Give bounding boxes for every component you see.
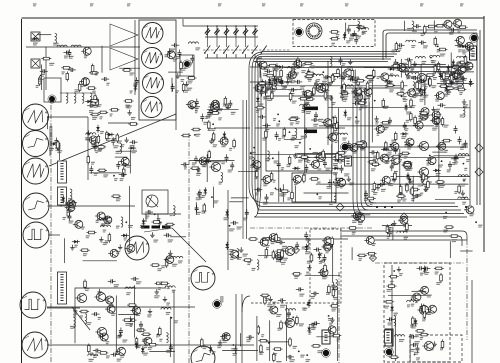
value label [81, 227, 85, 229]
resistor R182 [401, 80, 404, 90]
value label [328, 319, 333, 321]
capacitor C161 [394, 59, 398, 67]
transistor T189 [220, 333, 230, 341]
value label [336, 185, 340, 187]
resistor R161 [334, 155, 344, 158]
diode D124 [439, 71, 443, 79]
value label [382, 128, 387, 130]
value label [305, 252, 310, 254]
wire [433, 20, 435, 30]
resistor R157 [411, 186, 414, 196]
value label [447, 170, 451, 172]
wire [256, 316, 258, 361]
inductor L115 [407, 69, 409, 79]
value label [292, 136, 296, 138]
scope waveform circle S9 [142, 48, 163, 69]
resistor R109 [91, 64, 94, 74]
resistor R252 [264, 295, 267, 305]
node [463, 163, 465, 165]
value label [133, 309, 138, 311]
VHF tuner box outer border [383, 30, 477, 60]
bus junction node [391, 206, 393, 208]
tuner unit dashed box [293, 20, 375, 47]
ground [462, 99, 466, 104]
ground [127, 110, 131, 115]
value label [296, 122, 300, 124]
value label [447, 90, 452, 92]
diode D140 [307, 325, 311, 333]
capacitor C237 [449, 28, 457, 32]
wire corner [242, 296, 250, 312]
resistor R318 [332, 74, 342, 77]
inductor L150 [125, 287, 135, 289]
capacitor C153 [454, 126, 458, 134]
value label [133, 84, 138, 86]
value label [125, 105, 130, 107]
value label [404, 156, 408, 158]
value label [276, 78, 281, 80]
node [125, 221, 127, 223]
resistor R188 [396, 195, 406, 198]
value label [388, 82, 393, 84]
value label [418, 184, 423, 186]
wire [449, 241, 451, 258]
value label [313, 153, 318, 155]
resistor R190 [304, 75, 314, 78]
node [429, 155, 431, 157]
value label [405, 230, 409, 232]
diode D146 [423, 266, 427, 274]
resistor R136 [265, 74, 275, 77]
value label [417, 129, 421, 131]
scope waveform circle S8 [142, 23, 163, 44]
value label [393, 150, 398, 152]
node [250, 152, 252, 154]
node [307, 304, 309, 306]
transistor T139 [430, 116, 440, 124]
ground [218, 340, 222, 345]
diode D144 [414, 318, 418, 326]
wire [316, 183, 469, 185]
wire vertical feed 1 [242, 100, 244, 239]
wire bundle return 3 [375, 239, 467, 241]
value label [105, 241, 109, 243]
wire bundle corner [365, 199, 372, 207]
inductor L132 [252, 157, 254, 167]
value label [87, 323, 91, 325]
choke row wire [60, 92, 96, 94]
value label [225, 106, 229, 108]
transistor T121 [310, 160, 320, 168]
delay line box [142, 190, 168, 214]
diode D51 [277, 80, 285, 84]
value label [273, 354, 277, 356]
scope waveform circle S2 [23, 131, 49, 157]
node [126, 100, 128, 102]
ground [392, 177, 396, 182]
wire [336, 288, 338, 361]
capacitor C178 [207, 109, 211, 117]
value label [202, 211, 207, 213]
value label [435, 125, 439, 127]
resistor R322 [261, 79, 264, 89]
value label [360, 148, 365, 150]
value label [325, 126, 329, 128]
capacitor C104 [63, 51, 71, 55]
wire [170, 236, 186, 238]
value label [148, 348, 153, 350]
value label [219, 182, 223, 184]
node [463, 180, 465, 182]
ground [374, 116, 378, 121]
wire right strip 2 [471, 280, 473, 363]
node [95, 145, 97, 147]
capacitor C227 [54, 138, 58, 146]
value label [118, 141, 122, 143]
value label [67, 211, 72, 213]
value label [218, 118, 222, 120]
ground [118, 332, 122, 337]
diode D50 [277, 65, 285, 69]
resistor R174 [371, 163, 381, 166]
resistor R285 [159, 282, 169, 285]
value label [92, 118, 97, 120]
value label [302, 111, 306, 113]
transistor T185 [427, 305, 437, 313]
value label [343, 99, 348, 101]
value label [275, 77, 280, 79]
value label [385, 306, 390, 308]
value label [299, 324, 304, 326]
capacitor C221 [171, 84, 175, 92]
page index mark [90, 4, 94, 6]
value label [315, 88, 320, 90]
resistor R282 [148, 343, 158, 346]
value label [266, 348, 270, 350]
resistor R187 [437, 62, 440, 72]
value label [101, 224, 106, 226]
value label [122, 175, 126, 177]
node [333, 181, 335, 183]
capacitor C216 [386, 317, 394, 321]
value label [455, 66, 460, 68]
value label [458, 84, 463, 86]
transistor T132 [261, 176, 271, 184]
capacitor C211 [92, 312, 100, 316]
value label [346, 41, 350, 43]
page index mark [460, 4, 464, 6]
value label [94, 173, 98, 175]
capacitor C151 [303, 154, 307, 162]
value label [147, 315, 152, 317]
value label [270, 91, 274, 93]
capacitor C170 [130, 140, 138, 144]
resistor R272 [135, 337, 138, 347]
diode D141 [307, 300, 311, 308]
value label [440, 348, 443, 350]
dashed box bottom extension [251, 302, 310, 304]
resistor R212 [41, 57, 51, 60]
value label [385, 86, 389, 88]
transistor T110 [75, 293, 86, 302]
value label [420, 99, 425, 101]
resistor R191 [355, 142, 365, 145]
resistor R303 [444, 226, 454, 229]
value label [388, 228, 391, 230]
value label [344, 91, 348, 93]
value label [294, 73, 299, 75]
wire [119, 67, 140, 69]
resistor R281 [141, 333, 151, 336]
value label [371, 169, 376, 171]
value label [398, 48, 402, 50]
value label [426, 115, 430, 117]
resistor R301 [201, 338, 204, 348]
transistor T152 [451, 71, 461, 79]
resistor R255 [258, 339, 268, 342]
inductor L156 [188, 42, 198, 44]
value label [337, 339, 341, 341]
value label [392, 50, 396, 52]
wire [356, 214, 370, 216]
capacitor C217 [415, 345, 419, 353]
value label [447, 28, 451, 30]
wire into module 2 [250, 81, 292, 83]
value label [370, 203, 373, 205]
capacitor C167 [111, 137, 115, 145]
ground [330, 317, 334, 322]
wire [327, 61, 329, 145]
value label [396, 69, 401, 71]
value label [460, 147, 464, 149]
diode D102 [343, 32, 347, 40]
value label [276, 258, 281, 260]
value label [464, 67, 469, 69]
value label [341, 160, 345, 162]
value label [99, 149, 103, 151]
wire [266, 341, 289, 343]
wire [331, 144, 333, 202]
diode D128 [128, 146, 136, 150]
choke coil 2 [74, 93, 76, 103]
value label [55, 149, 60, 151]
capacitor C228 [198, 189, 202, 197]
wire scope S1 [48, 116, 89, 118]
value label [229, 148, 232, 150]
value label [326, 251, 330, 253]
capacitor C189 [245, 209, 249, 217]
inductor L135 [97, 219, 107, 221]
capacitor C233 [323, 75, 331, 79]
ground [352, 30, 356, 35]
value label [166, 303, 170, 305]
node [393, 270, 395, 272]
diode D119 [460, 44, 468, 48]
value label [464, 168, 467, 170]
resistor R152 [336, 121, 339, 131]
value label [463, 52, 467, 54]
resistor R304 [367, 252, 377, 255]
wire [296, 153, 344, 155]
capacitor C148 [403, 122, 407, 130]
diode D137 [225, 209, 229, 217]
value label [318, 169, 322, 171]
value label [339, 76, 343, 78]
value label [284, 86, 288, 88]
value label [203, 122, 207, 124]
value label [350, 34, 354, 36]
resistor R260 [292, 273, 302, 276]
value label [443, 80, 448, 82]
value label [459, 72, 464, 74]
transistor T116 [415, 73, 426, 82]
value label [283, 258, 288, 260]
value label [85, 289, 89, 291]
value label [72, 207, 76, 209]
value label [308, 97, 311, 99]
resistor R307 [57, 141, 60, 151]
transistor T186 [419, 286, 429, 294]
value label [451, 79, 456, 81]
value label [331, 79, 336, 81]
value label [259, 352, 264, 354]
resistor R117 [265, 129, 268, 139]
resistor R240 [80, 249, 90, 252]
value label [398, 66, 402, 68]
value label [444, 125, 449, 127]
value label [195, 111, 198, 113]
value label [196, 134, 201, 136]
value label [130, 325, 133, 327]
value label [445, 73, 449, 75]
value label [229, 250, 233, 252]
wire [412, 290, 427, 292]
capacitor C152 [388, 117, 392, 125]
trimmer capacitor row item 1 [205, 25, 210, 47]
wire section divider x135 [134, 20, 136, 95]
transistor T151 [454, 36, 464, 44]
resistor R219 [97, 169, 107, 172]
value label [466, 49, 471, 51]
resistor R227 [97, 134, 100, 144]
value label [433, 78, 437, 80]
wire [304, 192, 349, 194]
capacitor C107 [68, 68, 76, 72]
wire [118, 314, 138, 316]
scope waveform circle S5 [23, 222, 49, 248]
capacitor C133 [263, 124, 271, 128]
resistor R144 [403, 162, 413, 165]
value label [325, 90, 329, 92]
capacitor C219 [177, 50, 181, 58]
ground [457, 71, 461, 76]
ground [424, 186, 428, 191]
diode D107 [400, 132, 408, 136]
value label [411, 77, 416, 79]
node [391, 354, 393, 356]
value label [117, 336, 122, 338]
wire [264, 80, 266, 95]
value label [466, 64, 470, 66]
inductor L106 [337, 133, 347, 135]
value label [454, 70, 458, 72]
resistor R239 [111, 195, 121, 198]
value label [103, 243, 108, 245]
node [391, 224, 393, 226]
inductor L105 [287, 66, 297, 68]
capacitor C201 [278, 255, 282, 263]
value label [349, 38, 354, 40]
wire [189, 344, 254, 346]
inductor L134 [216, 101, 218, 111]
transistor T106 [314, 152, 325, 161]
resistor R294 [441, 339, 444, 349]
value label [391, 140, 395, 142]
value label [410, 349, 415, 351]
resistor R106 [78, 82, 81, 92]
transistor T157 [119, 158, 129, 166]
value label [391, 184, 394, 186]
resistor R290 [440, 273, 443, 283]
resistor R248 [330, 305, 340, 308]
capacitor C120 [348, 76, 356, 80]
value label [165, 227, 169, 229]
value label [341, 91, 346, 93]
value label [131, 118, 136, 120]
value label [203, 347, 207, 349]
wire [424, 77, 426, 106]
value label [199, 197, 202, 199]
node [194, 134, 196, 136]
trimmer capacitor row item 3 [224, 25, 229, 47]
ground [310, 91, 314, 96]
trimmer capacitor row item 6 [252, 25, 257, 47]
capacitor C110 [464, 140, 468, 148]
resistor R250 [331, 334, 341, 337]
wire bundle loop line 3 [255, 57, 461, 211]
wire [214, 127, 250, 129]
wire [340, 87, 401, 89]
value label [69, 56, 74, 58]
value label [463, 79, 467, 81]
resistor R200 [454, 71, 464, 74]
capacitor C159 [445, 86, 449, 94]
wire [432, 151, 446, 153]
value label [70, 326, 75, 328]
resistor R235 [181, 134, 191, 137]
value label [93, 105, 97, 107]
ground [239, 247, 243, 252]
resistor R101 [329, 31, 339, 34]
scope waveform circle S7 [22, 332, 48, 358]
capacitor C112 [294, 80, 302, 84]
value label [84, 56, 88, 58]
value label [281, 194, 286, 196]
value label [203, 165, 207, 167]
value label [444, 94, 449, 96]
transistor T176 [322, 237, 332, 245]
value label [263, 74, 267, 76]
transistor T148 [448, 72, 458, 80]
value label [448, 84, 453, 86]
resistor R171 [405, 67, 408, 77]
value label [304, 102, 309, 104]
AFC dashed box [384, 263, 450, 362]
value label [263, 184, 268, 186]
wire [45, 47, 47, 90]
value label [385, 162, 390, 164]
value label [344, 96, 348, 98]
